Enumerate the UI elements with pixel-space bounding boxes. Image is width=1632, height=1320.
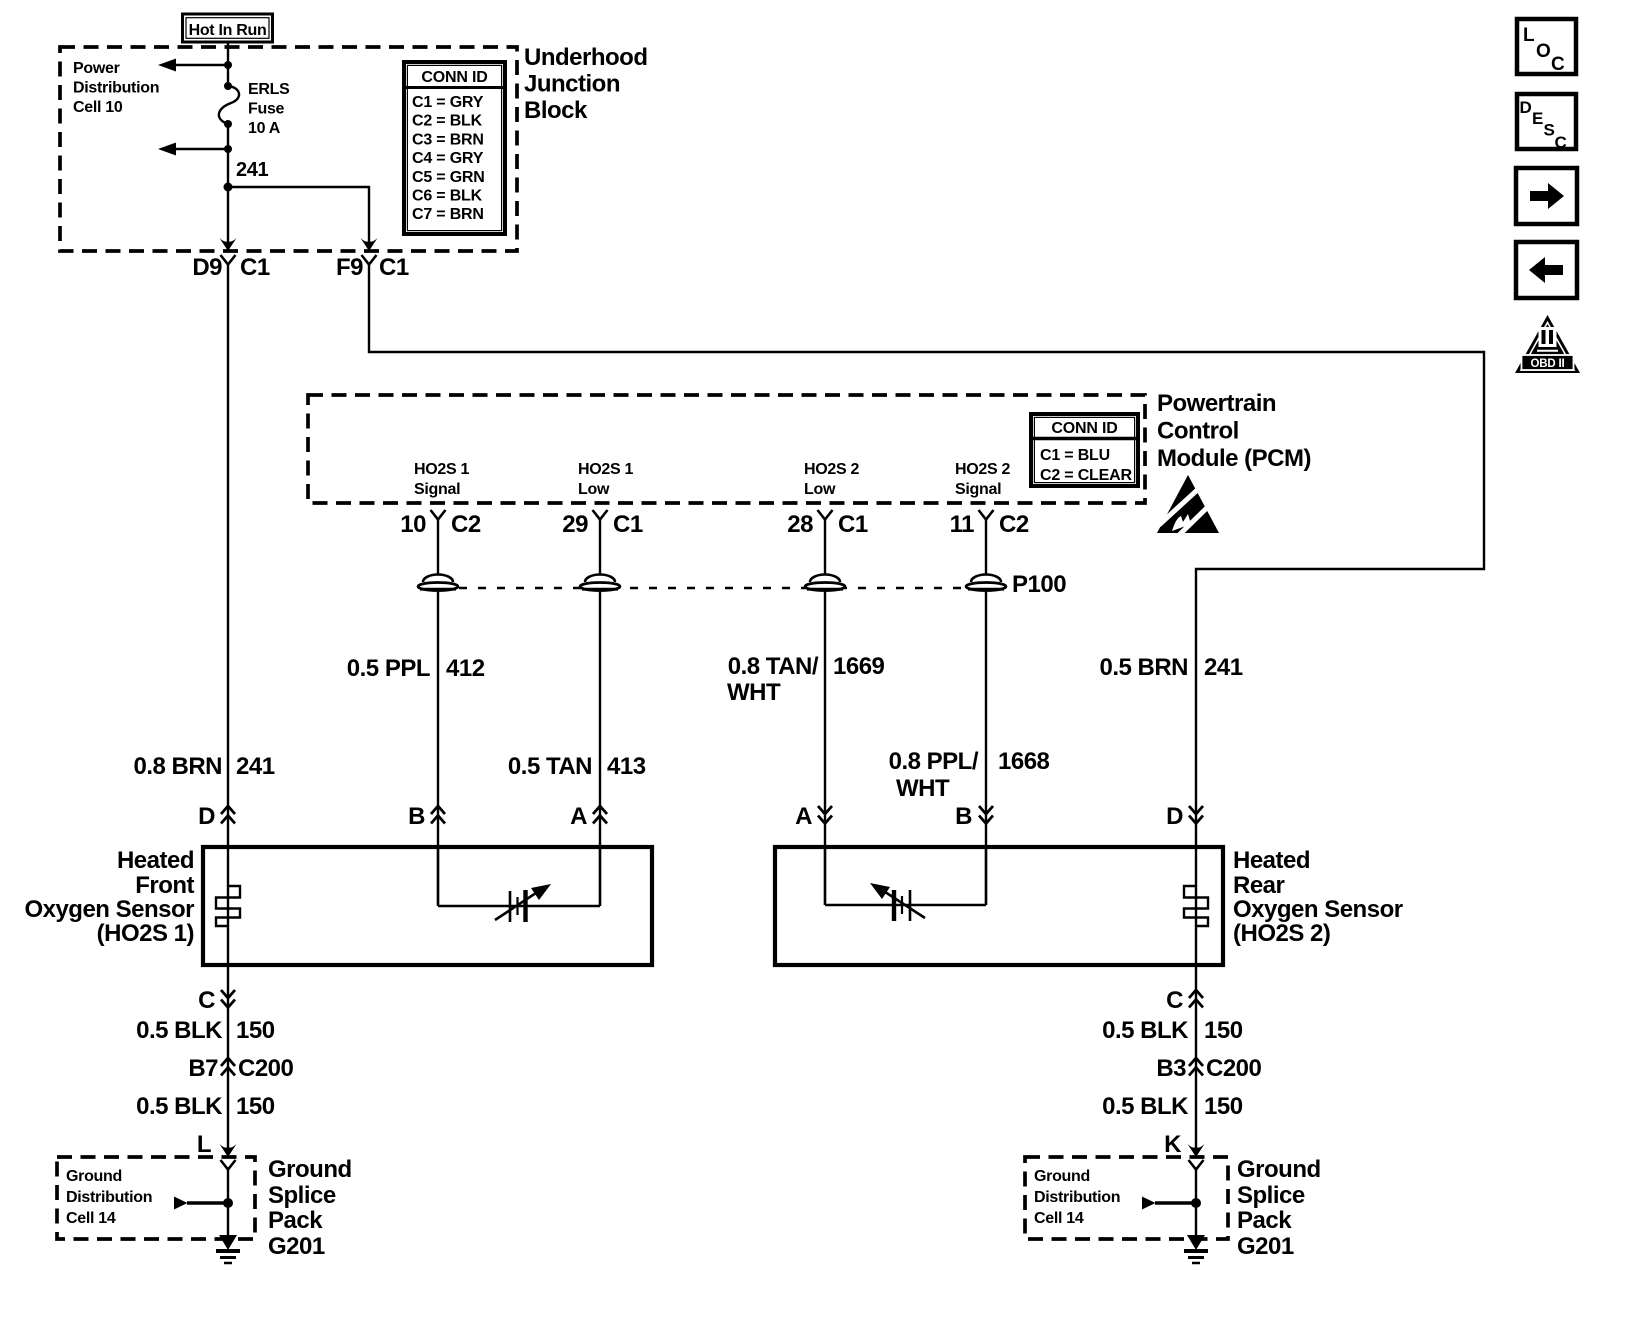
svg-text:1668: 1668 xyxy=(998,748,1050,775)
PCM connector table CONN ID xyxy=(1031,414,1138,486)
HO2S1 pin B xyxy=(408,803,445,830)
svg-text:11: 11 xyxy=(950,511,975,538)
svg-text:L: L xyxy=(197,1131,211,1158)
wire: branch to F9 xyxy=(228,187,369,243)
sensing element (variable) HO2S1 xyxy=(438,884,600,922)
svg-text:D: D xyxy=(198,803,215,830)
svg-text:0.5 PPL: 0.5 PPL xyxy=(347,655,430,682)
svg-text:0.5 BRN: 0.5 BRN xyxy=(1099,654,1188,681)
HO2S1 pin C xyxy=(198,987,235,1014)
heater element HO2S2 xyxy=(1184,886,1208,926)
connector D9 C1 xyxy=(192,254,270,281)
svg-text:A: A xyxy=(570,803,587,830)
svg-text:C1 = GRYC2 = BLKC3 = BRNC4 = G: C1 = GRYC2 = BLKC3 = BRNC4 = GRYC5 = GRN… xyxy=(412,94,485,223)
PCM pin 28 C1 xyxy=(787,510,868,538)
splice pack entry arrow (left) xyxy=(220,1144,237,1157)
wire to ground G201 (left) xyxy=(227,1170,229,1238)
svg-text:C: C xyxy=(1551,54,1565,75)
wire: D through HO2S1 down to splice pack xyxy=(227,847,229,1155)
grommet on wire 412 xyxy=(418,575,458,591)
connector B3 C200 xyxy=(1156,1055,1261,1082)
wire: A down inside HO2S2 xyxy=(824,847,826,905)
svg-text:C1: C1 xyxy=(838,511,868,538)
svg-text:150: 150 xyxy=(1204,1017,1243,1044)
svg-text:0.8 TAN/: 0.8 TAN/ xyxy=(728,653,819,680)
svg-text:C: C xyxy=(198,987,215,1014)
svg-text:OBD II: OBD II xyxy=(1531,358,1565,370)
svg-text:150: 150 xyxy=(1204,1093,1243,1120)
PCM dashed box xyxy=(308,395,1145,503)
power feed label "Hot In Run" xyxy=(183,14,273,42)
svg-text:CONN ID: CONN ID xyxy=(1051,420,1117,437)
svg-text:D9: D9 xyxy=(192,254,222,281)
ground G201 (left) xyxy=(216,1235,240,1263)
svg-text:413: 413 xyxy=(607,753,646,780)
svg-text:D: D xyxy=(1520,98,1532,117)
Heated Rear Oxygen Sensor (HO2S 2) box xyxy=(775,847,1223,965)
grommet P100 on wire 1668 xyxy=(966,575,1006,591)
wire: Hot In Run feed down to fuse xyxy=(227,42,229,86)
svg-text:0.5 BLK: 0.5 BLK xyxy=(136,1093,223,1120)
svg-text:B: B xyxy=(955,803,972,830)
svg-text:241: 241 xyxy=(236,753,275,780)
svg-text:0.5 BLK: 0.5 BLK xyxy=(1102,1017,1189,1044)
svg-text:B7: B7 xyxy=(188,1055,218,1082)
HO2S2 pin A xyxy=(795,803,832,830)
svg-text:C1: C1 xyxy=(613,511,643,538)
wire to ground G201 (right) xyxy=(1195,1170,1197,1238)
wire: D through HO2S2 down to splice pack xyxy=(1195,847,1197,1155)
wire HO2S2 low (pin28 to A) xyxy=(824,520,826,906)
wire 241 (0.8 BRN) from D9 down to HO2S1 pin D xyxy=(227,265,229,848)
PCM pin 10 C2 xyxy=(400,510,481,538)
svg-text:C: C xyxy=(1166,987,1183,1014)
svg-text:0.8 PPL/: 0.8 PPL/ xyxy=(889,748,979,775)
svg-text:P100: P100 xyxy=(1012,571,1066,598)
PCM pin 29 C1 xyxy=(562,510,643,538)
splice pack entry arrow (right) xyxy=(1188,1144,1205,1157)
connector F9 C1 xyxy=(336,254,409,281)
svg-text:Hot In Run: Hot In Run xyxy=(189,22,267,39)
HO2S2 pin C xyxy=(1166,987,1203,1014)
svg-text:0.8 BRN: 0.8 BRN xyxy=(133,753,222,780)
connector B7 C200 xyxy=(188,1055,293,1082)
svg-text:WHT: WHT xyxy=(727,679,781,706)
svg-text:412: 412 xyxy=(446,655,485,682)
ground distribution dashed box (left) xyxy=(57,1157,255,1239)
svg-text:10: 10 xyxy=(400,511,426,538)
svg-text:C1: C1 xyxy=(240,254,270,281)
icon OBD II warning triangle xyxy=(1515,315,1580,373)
Heated Front Oxygen Sensor (HO2S 1) box xyxy=(203,847,652,965)
svg-text:241: 241 xyxy=(236,159,268,181)
svg-text:0.5 TAN: 0.5 TAN xyxy=(508,753,592,780)
heater element HO2S1 xyxy=(216,886,240,926)
grommet on wire 1669 xyxy=(805,575,845,591)
svg-text:D: D xyxy=(1166,803,1183,830)
connector exit arrow F9 xyxy=(361,238,378,251)
PCM pin 11 C2 xyxy=(950,510,1029,538)
svg-text:241: 241 xyxy=(1204,654,1243,681)
svg-text:0.5 BLK: 0.5 BLK xyxy=(136,1017,223,1044)
bulkhead pass-through dashed line xyxy=(440,587,986,590)
wire: B down inside HO2S1 xyxy=(437,847,439,906)
icon back arrow xyxy=(1516,242,1577,298)
svg-text:150: 150 xyxy=(236,1093,275,1120)
grommet on wire 413 xyxy=(580,575,620,591)
connector exit arrow D9 xyxy=(220,238,237,251)
wire: B down inside HO2S2 xyxy=(985,847,987,905)
svg-text:WHT: WHT xyxy=(896,775,950,802)
svg-text:L: L xyxy=(1523,25,1535,46)
splice connector fork (right) xyxy=(1189,1160,1204,1170)
svg-text:C: C xyxy=(1555,133,1567,152)
svg-text:K: K xyxy=(1164,1131,1182,1158)
HO2S2 pin D xyxy=(1166,803,1203,830)
icon LOC xyxy=(1517,19,1576,75)
HO2S2 pin B xyxy=(955,803,993,830)
connector table CONN ID (underhood junction block) xyxy=(404,62,505,234)
svg-text:B3: B3 xyxy=(1156,1055,1186,1082)
sensing element (variable) HO2S2 xyxy=(825,883,986,921)
fuse F1 "ERLS Fuse 10 A" xyxy=(219,82,239,128)
wire: A down inside HO2S1 xyxy=(599,847,601,906)
svg-text:O: O xyxy=(1536,41,1551,62)
wire HO2S1 signal (pin10 to B) xyxy=(437,520,439,907)
wire HO2S1 low (pin29 to A) xyxy=(599,520,601,907)
splice feed branch (left) xyxy=(174,1197,233,1210)
icon forward arrow xyxy=(1516,168,1577,224)
svg-text:150: 150 xyxy=(236,1017,275,1044)
HO2S1 pin D xyxy=(198,803,235,830)
ESD sensitivity symbol xyxy=(1157,475,1219,538)
svg-text:1669: 1669 xyxy=(833,653,885,680)
svg-text:C200: C200 xyxy=(238,1055,294,1082)
svg-text:A: A xyxy=(795,803,812,830)
svg-text:29: 29 xyxy=(562,511,588,538)
splice feed branch (right) xyxy=(1142,1197,1201,1210)
wire branch arrow (upper left feed) xyxy=(158,59,232,72)
wire branch arrow (lower left feed) xyxy=(158,143,232,156)
svg-text:E: E xyxy=(1532,109,1543,128)
wire: fuse output down xyxy=(227,124,229,250)
node: junction of 241 branch to F9 xyxy=(224,183,233,192)
ground G201 (right) xyxy=(1184,1235,1208,1263)
icon DESC xyxy=(1517,94,1576,152)
svg-text:C200: C200 xyxy=(1206,1055,1262,1082)
wire HO2S2 signal (pin11 to B) xyxy=(985,520,987,906)
underhood junction block dashed box xyxy=(60,47,517,251)
svg-text:0.5 BLK: 0.5 BLK xyxy=(1102,1093,1189,1120)
svg-text:C1: C1 xyxy=(379,254,409,281)
svg-text:S: S xyxy=(1544,121,1555,140)
wire 241 (0.5 BRN) from F9 right and down to HO2S2 pin D xyxy=(369,265,1484,848)
svg-text:C2: C2 xyxy=(451,511,481,538)
svg-text:F9: F9 xyxy=(336,254,363,281)
HO2S1 pin A xyxy=(570,803,607,830)
svg-text:CONN ID: CONN ID xyxy=(421,69,487,86)
ground distribution dashed box (right) xyxy=(1025,1157,1228,1239)
svg-text:B: B xyxy=(408,803,425,830)
splice connector fork (left) xyxy=(221,1160,236,1170)
svg-text:C2: C2 xyxy=(999,511,1029,538)
svg-text:28: 28 xyxy=(787,511,813,538)
